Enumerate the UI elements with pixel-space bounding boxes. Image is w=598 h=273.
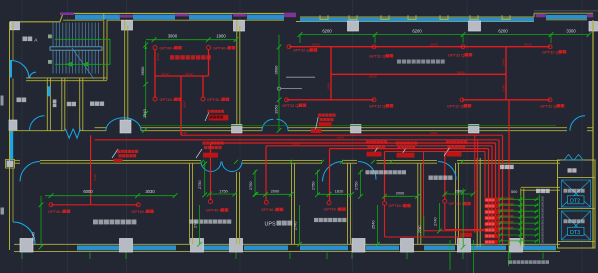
column top D	[469, 21, 481, 31]
top wall right parapet	[534, 11, 598, 20]
wire riser ring M3	[153, 97, 157, 101]
door leaf in shaft wall	[48, 86, 51, 96]
door leaf print room wall	[124, 120, 127, 130]
svg-text:6200: 6200	[498, 28, 508, 33]
svg-text:2X40: 2X40	[337, 136, 344, 140]
elevation marker	[277, 87, 302, 90]
wall shaft right	[62, 78, 65, 131]
ring big room top 2	[372, 45, 376, 49]
stair arrow 1	[66, 62, 72, 67]
svg-text:2X40: 2X40	[182, 101, 186, 108]
svg-text:DN30: DN30	[524, 43, 532, 47]
circuit label M1	[160, 45, 182, 50]
corridor bus 5	[330, 148, 489, 150]
circuit label R1b	[132, 209, 154, 214]
stair bottom wall	[26, 78, 107, 81]
riser box red text	[485, 199, 494, 244]
circuit label M2	[213, 45, 235, 50]
ring room2	[209, 200, 213, 204]
circuit label B8	[540, 103, 564, 108]
svg-text:2500: 2500	[541, 213, 545, 219]
ring room1 right	[136, 203, 140, 207]
lift shaft DT2	[562, 180, 591, 207]
annotation corridor B	[196, 142, 224, 159]
feed lift hall pair	[475, 135, 478, 233]
lift block dividers	[558, 178, 596, 242]
dim room5 vertical	[358, 170, 363, 199]
lift roof vents	[564, 155, 583, 161]
label room A	[17, 98, 22, 103]
svg-text:2X40: 2X40	[293, 142, 300, 146]
dim line big room top	[298, 32, 592, 37]
green riser ladder	[498, 195, 539, 245]
green verticals below wall	[450, 240, 508, 273]
room5 name	[366, 170, 370, 174]
dim room2 vertical	[202, 161, 207, 197]
ring big room top 3	[461, 45, 465, 49]
svg-text:3600: 3600	[274, 65, 279, 75]
wall room2/3	[237, 172, 240, 244]
svg-text:2750: 2750	[311, 182, 315, 190]
lift lobby top wall	[521, 187, 560, 190]
wire M vertical left	[154, 49, 156, 97]
svg-text:GPT40 4: GPT40 4	[132, 209, 148, 214]
room1 name	[93, 220, 98, 225]
label stair A	[23, 37, 39, 44]
feed room2	[210, 143, 212, 200]
room3 name	[265, 221, 293, 228]
column top A	[122, 21, 133, 31]
svg-text:6200: 6200	[412, 28, 422, 33]
svg-text:GPT32 Q6: GPT32 Q6	[540, 103, 559, 108]
svg-text:DN30: DN30	[457, 70, 465, 74]
corridor bus 3	[211, 142, 496, 144]
annotation corridor E	[444, 141, 467, 157]
corridor bus 4	[266, 145, 492, 147]
room6 name	[429, 176, 433, 180]
circuit label B2	[369, 53, 393, 58]
wire riser ring M1	[153, 46, 157, 50]
door room A bottom	[30, 116, 45, 131]
svg-text:2000: 2000	[271, 189, 279, 193]
door arc upper-left	[12, 61, 37, 79]
room4 name	[314, 218, 318, 222]
bottom wall columns	[20, 239, 523, 253]
dim room3 horizontal	[253, 192, 293, 197]
right exterior wall	[592, 20, 594, 248]
dim room4 horizontal	[318, 192, 354, 197]
corridor bus 6	[385, 151, 486, 153]
bottom caption	[509, 260, 550, 264]
ring room6	[443, 199, 447, 203]
svg-text:GPT32 Q6: GPT32 Q6	[542, 49, 561, 54]
door print room	[106, 118, 141, 131]
ring room3	[264, 200, 268, 204]
top wall left section with window bands	[10, 13, 284, 21]
circuit label R1a	[48, 209, 70, 214]
svg-text:1750: 1750	[219, 189, 227, 193]
svg-text:GPT40 4: GPT40 4	[160, 97, 176, 102]
svg-text:GPT32 Q6: GPT32 Q6	[448, 52, 467, 57]
feed room5 lower run	[385, 205, 463, 237]
purple cap column B	[233, 14, 247, 17]
svg-text:2740: 2740	[434, 218, 438, 226]
circuit label B4	[542, 49, 566, 54]
feed riser mid	[424, 152, 490, 231]
column top C	[348, 21, 359, 31]
wire big room top bus	[289, 46, 550, 48]
wall strong-elec right	[80, 78, 83, 131]
ring big room bottom 3	[460, 98, 464, 102]
svg-text:3X40: 3X40	[502, 59, 506, 66]
door lift hall top	[570, 116, 585, 131]
bottom dim ticks	[22, 253, 543, 260]
room name machine room	[170, 55, 174, 59]
feed room3	[265, 146, 267, 201]
column left wall mid	[9, 120, 17, 131]
left edge mark 1	[1, 96, 4, 106]
door leaf left wall	[10, 130, 13, 159]
wire big room vertical A	[330, 47, 332, 100]
riser from big room	[508, 100, 510, 246]
svg-text:UPS: UPS	[265, 222, 276, 228]
purple lintel marks top-left	[60, 12, 296, 17]
svg-text:SC40: SC40	[156, 53, 160, 61]
green tick door mid	[142, 128, 147, 133]
corridor bus 2	[95, 139, 500, 141]
wall room3/4	[292, 163, 295, 244]
svg-text:1900: 1900	[216, 33, 226, 38]
svg-text:2X40: 2X40	[180, 131, 187, 135]
svg-text:2X40: 2X40	[430, 131, 437, 135]
corridor top wall columns	[232, 125, 480, 134]
wall hall/riser	[477, 158, 480, 247]
double door strong-elec	[65, 129, 80, 139]
riser bend verticals	[485, 135, 503, 244]
label strong-elec room	[67, 102, 71, 106]
wall shaft left	[47, 78, 50, 131]
wire riser ring M2	[207, 46, 211, 50]
svg-text:GPT32 Q6: GPT32 Q6	[369, 103, 388, 108]
svg-text:DT3: DT3	[570, 230, 580, 236]
ring room1 left	[49, 203, 53, 207]
svg-text:GPT40 4: GPT40 4	[160, 45, 176, 50]
circuit label B5	[282, 103, 306, 108]
label print room	[90, 102, 94, 106]
label air shaft	[53, 100, 57, 104]
feed room5	[384, 152, 386, 202]
svg-text:GPT32 Q6: GPT32 Q6	[282, 103, 301, 108]
dim lower room2	[194, 205, 202, 247]
lift shaft DT3	[562, 211, 591, 240]
svg-text:2740: 2740	[194, 220, 198, 228]
ring big room bottom 4	[548, 98, 552, 102]
room1 bus	[51, 204, 138, 206]
left exterior wall	[6, 22, 15, 250]
dim line machine room vertical	[143, 41, 148, 119]
wall room6/hall	[456, 163, 459, 244]
annotation corridor D	[366, 141, 387, 157]
circuit label B3	[448, 52, 472, 57]
dim line big room left vertical	[277, 35, 282, 133]
stair right wall	[104, 13, 107, 80]
svg-text:3X40: 3X40	[327, 83, 331, 90]
svg-text:GPT40 4: GPT40 4	[261, 207, 277, 212]
svg-text:2750: 2750	[198, 181, 202, 189]
wire M feed down to corridor	[180, 76, 182, 135]
corridor top wall	[10, 128, 594, 131]
ring big room bottom 2	[372, 98, 376, 102]
feed room1	[90, 135, 92, 204]
svg-text:2500: 2500	[541, 201, 545, 207]
svg-text:2X40: 2X40	[186, 72, 193, 76]
riser label boxes	[485, 198, 499, 245]
dim room2 horizontal	[207, 192, 237, 197]
svg-text:GPT40 4: GPT40 4	[449, 201, 465, 206]
riser out box	[460, 233, 472, 237]
svg-text:2750: 2750	[249, 182, 253, 190]
svg-text:2X40: 2X40	[93, 174, 97, 181]
door room5	[358, 162, 376, 180]
dim room3 vertical	[253, 170, 258, 197]
dim room1 horizontal	[45, 193, 177, 198]
svg-text:3600: 3600	[140, 66, 145, 76]
lift block outer	[558, 160, 596, 248]
circuit label R2	[206, 208, 228, 213]
svg-text:GPT40 4: GPT40 4	[207, 97, 223, 102]
feed room4	[329, 149, 331, 201]
svg-text:2750: 2750	[354, 182, 358, 190]
svg-text:2500: 2500	[541, 219, 545, 225]
column corridor door mid	[120, 120, 131, 133]
riser step rungs	[487, 198, 514, 228]
top wall right section with window band	[296, 17, 534, 22]
annotation machine room	[205, 110, 228, 121]
double door vestibule	[262, 119, 288, 131]
stair label up 1	[48, 35, 52, 39]
dim room5 horizontal	[382, 194, 420, 199]
wire big room bottom bus right	[462, 99, 550, 101]
svg-text:DN30: DN30	[312, 43, 320, 47]
svg-text:6000: 6000	[83, 189, 93, 194]
double door room3	[222, 162, 242, 172]
label lift DT3	[564, 219, 585, 236]
wire big room bottom bus left	[287, 99, 375, 101]
svg-text:3X40: 3X40	[502, 85, 506, 92]
svg-text:2500: 2500	[541, 237, 545, 243]
svg-text:2X40: 2X40	[162, 72, 169, 76]
ring room4	[327, 201, 331, 205]
double door room2	[201, 162, 221, 172]
circuit label R5	[389, 203, 411, 208]
svg-text:2500: 2500	[541, 225, 545, 231]
circuit label M4	[207, 97, 229, 102]
svg-text:GPT40 4: GPT40 4	[206, 208, 222, 213]
circuit label B7	[447, 103, 471, 108]
staircase break line	[72, 48, 94, 79]
dim room6 horizontal	[442, 192, 475, 197]
dim lower room6	[434, 203, 442, 233]
corridor bus 1	[181, 134, 503, 136]
door room1	[20, 162, 40, 182]
ladder tiny labels	[541, 195, 545, 243]
corridor bottom wall	[14, 160, 560, 163]
left edge mark 2	[1, 208, 5, 215]
ring big room top 4	[548, 45, 552, 49]
svg-text:7040: 7040	[31, 231, 36, 241]
wire M crossbar	[155, 75, 209, 77]
stair arrow 2	[82, 62, 88, 67]
svg-text:DT2: DT2	[570, 198, 580, 204]
circuit label R6	[449, 201, 471, 206]
window mullion clips	[320, 15, 510, 19]
svg-text:1950: 1950	[274, 104, 279, 114]
wire M vertical right-upper	[208, 49, 210, 76]
corridor dim line	[140, 125, 556, 127]
svg-text:2500: 2500	[541, 207, 545, 213]
column top-right corner	[589, 22, 598, 32]
dim lower room5 right	[418, 216, 424, 236]
bottom wall with window bands	[14, 244, 560, 251]
svg-text:GPT32 Q6: GPT32 Q6	[369, 53, 388, 58]
svg-text:GPT40 4: GPT40 4	[48, 209, 64, 214]
stair label up 2	[48, 60, 52, 64]
circuit label M3	[160, 97, 182, 102]
svg-text:DN30: DN30	[430, 43, 438, 47]
label stair hall	[500, 165, 504, 169]
dim room1 vertical	[39, 196, 44, 250]
ring big room top 1	[287, 45, 291, 49]
room2 name	[190, 220, 194, 224]
staircase landing rail	[50, 47, 102, 50]
feed room6	[444, 152, 446, 200]
wire big room vertical B	[505, 47, 507, 100]
svg-text:GPT40 4: GPT40 4	[389, 203, 405, 208]
room name judge info management	[397, 60, 401, 64]
door arc lower-left	[13, 222, 35, 244]
dim tick drops big room	[300, 35, 551, 43]
wall print-room right	[125, 20, 128, 131]
svg-text:3300: 3300	[566, 28, 576, 33]
door leaf upper-left	[10, 60, 12, 78]
svg-text:GPT32 Q6: GPT32 Q6	[447, 103, 466, 108]
annotation vestibule	[316, 114, 336, 130]
circuit label B1	[293, 48, 317, 53]
dim lower room5	[372, 205, 380, 247]
svg-text:2540: 2540	[372, 221, 376, 229]
label lift DT2	[564, 189, 585, 205]
door room4	[323, 162, 343, 182]
svg-text:500: 500	[511, 190, 517, 194]
svg-text:1810: 1810	[335, 189, 343, 193]
annotation corridor F	[396, 142, 417, 158]
svg-text:3900: 3900	[168, 33, 178, 38]
svg-text:DN30: DN30	[369, 75, 377, 79]
svg-text:2740: 2740	[294, 222, 298, 230]
wall lift-lobby left	[521, 189, 524, 248]
svg-text:6200: 6200	[322, 28, 332, 33]
svg-text:GPT40 4: GPT40 4	[324, 207, 340, 212]
wall room1/2	[190, 163, 193, 244]
column top-left corner	[10, 22, 20, 30]
dim lower room4	[294, 205, 302, 247]
corridor bottom wall ticks	[200, 160, 464, 164]
elevation dash 2	[286, 76, 315, 78]
ring room5	[383, 201, 387, 205]
red box on corridor	[311, 129, 322, 133]
circuit label R3	[261, 207, 283, 212]
annotation corridor A	[112, 149, 138, 162]
svg-text:2740: 2740	[418, 225, 422, 233]
column top B	[234, 21, 245, 32]
svg-text:GPT32 Q6: GPT32 Q6	[293, 48, 312, 53]
svg-text:2500: 2500	[541, 195, 545, 201]
wire riser ring M4	[201, 97, 205, 101]
label lift lobby	[536, 189, 540, 193]
purple cap column A	[120, 15, 134, 18]
lift hall dim	[461, 188, 466, 249]
dim line 3900/1900 horizontal	[146, 37, 238, 42]
wall room5/6	[418, 163, 421, 244]
wire M vertical right-lower	[202, 76, 204, 97]
feed room6 lower run	[445, 203, 489, 229]
svg-text:1940: 1940	[142, 108, 147, 118]
wire big room mid bus	[331, 73, 506, 75]
svg-text:2500: 2500	[541, 231, 545, 237]
staircase treads	[53, 23, 99, 74]
dim room4 vertical	[315, 170, 320, 198]
svg-text:2000: 2000	[396, 192, 404, 196]
wall machine-room right	[237, 20, 240, 131]
label lift machine room	[568, 168, 572, 172]
stair direction path	[55, 39, 110, 64]
door room6	[438, 162, 456, 180]
svg-text:GPT40 4: GPT40 4	[213, 45, 229, 50]
svg-text:3030: 3030	[145, 189, 155, 194]
ring big room bottom 1	[285, 98, 289, 102]
circuit label B6	[369, 103, 393, 108]
circuit label R4	[324, 207, 346, 212]
wall room4/5	[348, 163, 351, 244]
